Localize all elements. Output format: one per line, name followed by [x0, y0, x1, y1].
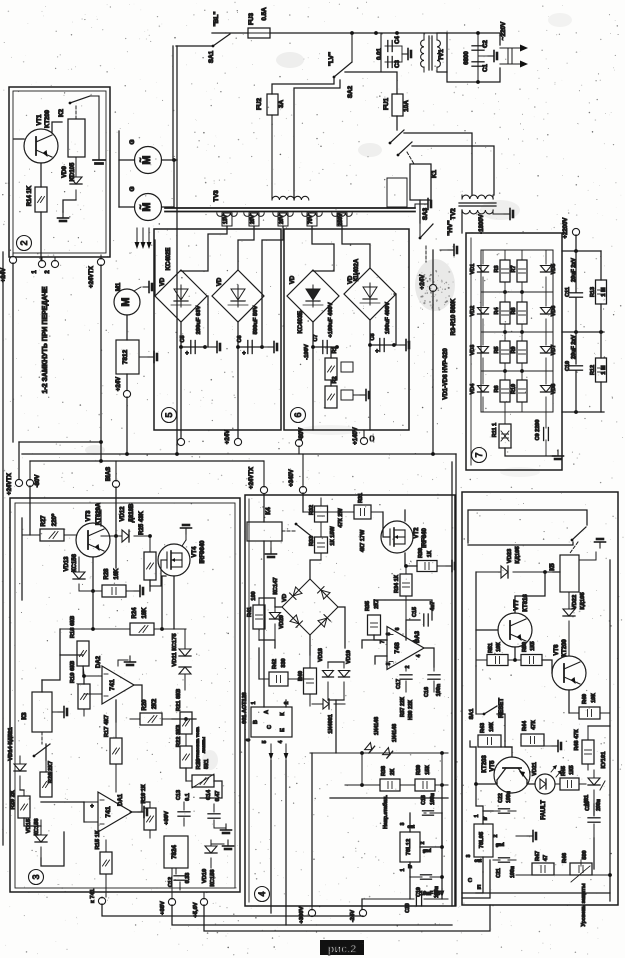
ground TV3: [415, 199, 431, 210]
label fig2: [320, 940, 364, 956]
label R22 3K3: [176, 724, 182, 747]
svg-text:КУ101: КУ101: [601, 751, 607, 769]
wire bridge4 right: [338, 607, 345, 648]
wire 78L05 top: [476, 784, 483, 824]
label SA2: [347, 85, 354, 98]
block 7 box: [466, 233, 562, 470]
svg-text:VD10: VD10: [202, 869, 208, 884]
svg-text:+24V: +24V: [1, 268, 7, 282]
terminal bus a: [177, 438, 184, 445]
ground filter: [478, 51, 497, 62]
svg-text:330: 330: [281, 658, 287, 667]
wire R20 to R21: [172, 718, 186, 720]
wire VT2 top: [404, 510, 406, 521]
resistor R1: [325, 358, 353, 380]
label +30V: [164, 811, 170, 825]
wire M1 to 7812: [126, 315, 128, 340]
svg-text:1: 1: [251, 701, 257, 704]
capacitor C23: [588, 812, 600, 838]
bridge VD KC402E b: [212, 270, 264, 322]
svg-text:20V: 20V: [250, 214, 256, 224]
svg-text:VD8: VD8: [551, 384, 557, 395]
ground TV2: [493, 209, 513, 220]
wire K1 dash: [407, 152, 414, 164]
svg-text:FAULT: FAULT: [540, 800, 547, 820]
wire 78L12 down: [409, 862, 411, 877]
wire DA3 out: [424, 648, 434, 667]
wire bias down: [115, 487, 117, 536]
wire filter box: [447, 33, 500, 82]
svg-text:FU2: FU2: [256, 98, 263, 110]
svg-text:R34 1К: R34 1К: [394, 574, 400, 593]
wire bridge b cap: [238, 346, 262, 348]
svg-text:R1: R1: [332, 346, 338, 353]
pins 78L05: [466, 814, 504, 863]
label VS1: [584, 795, 590, 805]
svg-text:IRF9640: IRF9640: [200, 540, 206, 564]
label R28 16K: [104, 568, 120, 580]
label R7: [511, 265, 517, 272]
label VT7 KT816: [514, 594, 529, 612]
contact K1 a: [389, 130, 404, 144]
svg-text:+30V: +30V: [164, 811, 170, 825]
svg-text:1: 1: [413, 639, 419, 642]
resistor R8: [517, 292, 527, 332]
label SA1: [208, 50, 215, 63]
led VD21: [535, 774, 555, 794]
contact K2: [69, 96, 99, 104]
resistor R11: [499, 412, 511, 448]
wire DA2 inputs: [82, 674, 102, 694]
svg-text:VT6: VT6: [554, 644, 560, 656]
diode VD23: [476, 566, 553, 578]
svg-text:C10: C10: [565, 361, 571, 371]
svg-text:C4: C4: [395, 36, 401, 44]
label VD13 KS156: [64, 553, 78, 572]
wire AOT k: [285, 700, 287, 707]
label VD1: [470, 264, 476, 275]
svg-text:VD14 КД521: VD14 КД521: [8, 726, 14, 760]
diode VD16: [365, 743, 375, 753]
label C7: [313, 334, 319, 341]
svg-text:R10: R10: [511, 384, 517, 394]
label 4K717W: [360, 529, 366, 552]
label R33 1K15W: [309, 526, 336, 546]
svg-text:+24V: +24V: [116, 377, 122, 391]
label DA1: [118, 793, 124, 806]
block 3 box: [10, 498, 240, 892]
wire K1 down: [419, 200, 421, 223]
wire bridge d right: [394, 294, 396, 345]
label C4 0.01 C3: [377, 36, 401, 68]
resistor R40: [304, 655, 317, 706]
svg-text:КД105: КД105: [580, 592, 586, 610]
wire SA2 to FU2: [272, 77, 334, 94]
fuse FU2: [267, 94, 278, 199]
svg-text:~: ~: [136, 157, 145, 162]
svg-text:0.47: 0.47: [215, 791, 221, 802]
wire bridge b down: [237, 322, 239, 439]
label -80V bus: [299, 428, 305, 441]
svg-text:R3-R10 560K: R3-R10 560K: [451, 298, 457, 335]
label K1: [431, 169, 438, 178]
motor G1: [135, 147, 162, 174]
svg-text:4: 4: [278, 740, 284, 743]
label R46 500: [562, 850, 588, 863]
svg-text:3A: 3A: [278, 100, 285, 109]
wire R21 branch: [186, 718, 196, 720]
wire R14 down: [40, 212, 42, 260]
wire DA1 out: [132, 785, 142, 812]
svg-text:лампы: лампы: [202, 737, 207, 753]
wire C20 left: [361, 899, 363, 910]
block 5R box: [462, 492, 618, 905]
wire DA1 inputs: [84, 802, 98, 822]
resistor R31: [303, 505, 383, 519]
svg-text:220*: 220*: [52, 513, 58, 526]
transformer TV3 winding 2: [244, 213, 264, 216]
label R40: [298, 671, 304, 681]
block 5 box: [154, 229, 281, 430]
label R11: [492, 423, 498, 437]
label C9 2200: [535, 420, 541, 441]
svg-text:VD: VD: [160, 277, 166, 286]
label +5.6V: [193, 902, 199, 917]
wire VT6 emitter down: [568, 690, 570, 713]
wire right bus drop: [455, 454, 457, 906]
terminal +140V bus: [360, 430, 367, 445]
wire b3 node: [115, 536, 117, 568]
switch SA3: [419, 223, 433, 239]
svg-text:VD3: VD3: [470, 345, 476, 356]
resistor R6: [500, 371, 510, 412]
transformer TV2 primary: [462, 195, 493, 199]
wire AOT a down: [270, 760, 272, 913]
wire SA3 dash: [425, 246, 427, 262]
label R25 43K: [139, 510, 145, 534]
svg-text:-100V: -100V: [304, 344, 310, 360]
svg-text:C15: C15: [412, 607, 418, 617]
diode VD4: [478, 371, 489, 412]
svg-text:R12: R12: [590, 365, 596, 375]
diode VD22: [563, 592, 575, 656]
wire R18 R19: [83, 666, 84, 684]
svg-text:VD4: VD4: [470, 383, 476, 395]
label R8: [511, 307, 517, 314]
label R44 47K: [522, 720, 537, 731]
svg-text:7: 7: [474, 452, 484, 457]
circled 5: [162, 408, 177, 423]
label R45 1K5: [561, 765, 575, 776]
wire bridge4 bottom: [309, 635, 311, 655]
label R35 2K7: [365, 599, 380, 611]
label N30 22K: [408, 699, 414, 720]
label R43 10K: [480, 722, 495, 733]
junction VT2 source: [404, 564, 408, 568]
terminal +5.6V: [200, 892, 207, 906]
terminal +24VTX b4: [260, 461, 267, 494]
svg-text:001 АОТ128: 001 АОТ128: [242, 692, 248, 723]
svg-text:R33: R33: [309, 536, 315, 546]
pins AOT128: [246, 701, 290, 743]
diode VD6: [541, 292, 552, 332]
capacitor C20: [362, 892, 448, 906]
capacitor C10: [570, 366, 583, 370]
svg-text:R30: R30: [418, 548, 424, 558]
svg-text:1 М: 1 М: [601, 287, 607, 297]
resistor R15: [100, 840, 112, 897]
resistor R5: [500, 332, 510, 371]
wire reset rail: [475, 666, 477, 714]
svg-text:100н: 100н: [430, 793, 436, 805]
label C5: [180, 335, 189, 357]
label +38V: [160, 901, 166, 915]
arrow out 2: [500, 61, 528, 68]
transformer TV3 primary: [272, 196, 309, 200]
svg-text:C11: C11: [565, 287, 571, 297]
svg-text:2: 2: [45, 270, 51, 274]
terminal +38V: [168, 868, 175, 906]
label C22 100n: [498, 791, 512, 803]
transistor VT3: [76, 523, 110, 557]
svg-text:3: 3: [400, 822, 406, 825]
wire VT3 top: [100, 510, 102, 526]
label R30 1K: [418, 548, 433, 558]
wire motor1: [119, 158, 177, 162]
wire reset to base: [497, 714, 505, 741]
svg-text:1К5: 1К5: [530, 641, 536, 650]
svg-text:KT209: KT209: [45, 109, 51, 128]
wire b3 r25 bottom: [149, 580, 151, 591]
wire E path: [462, 860, 490, 898]
svg-text:3: 3: [466, 854, 472, 857]
terminal -80V bus: [295, 430, 302, 454]
wire R31 to VT2 gate: [383, 512, 390, 537]
ground K4: [266, 541, 277, 557]
wire bottom 5R2: [608, 873, 612, 893]
wire VT4 gate: [150, 560, 167, 586]
svg-text:~220V: ~220V: [500, 21, 507, 40]
svg-text:500: 500: [582, 850, 588, 859]
circled 6: [291, 408, 306, 423]
svg-text:R6: R6: [494, 385, 500, 392]
svg-text:К5: К5: [549, 563, 556, 571]
terminal +24V mid: [429, 284, 436, 291]
svg-text:R15 1К: R15 1К: [95, 830, 101, 849]
svg-text:DA2: DA2: [96, 655, 102, 668]
wire VT7 base: [476, 629, 498, 631]
label VT2 IRF840: [414, 527, 428, 548]
ground C6: [262, 342, 277, 353]
relay K3: [32, 692, 52, 732]
label VD1-VD8 HVP-320: [443, 348, 449, 400]
wire left rail 5R: [475, 572, 477, 666]
svg-text:+24VTX: +24VTX: [249, 467, 255, 489]
svg-text:R50: R50: [522, 642, 528, 652]
label ~220V: [500, 21, 507, 40]
svg-text:+: +: [185, 351, 189, 357]
wire R22 down: [185, 768, 187, 781]
wire -80 into b3: [29, 486, 31, 535]
arrow out 1: [500, 45, 528, 52]
arrow AOT a: [269, 744, 274, 760]
svg-text:R5: R5: [494, 346, 500, 353]
label +24VTX mid: [7, 473, 13, 495]
label VD4: [470, 383, 476, 395]
terminal -24V: [359, 906, 366, 917]
label FAULT: [540, 800, 547, 820]
label R31: [358, 493, 364, 503]
label KU101: [601, 751, 607, 769]
resistor R43: [470, 735, 501, 747]
transformer TV3 winding 5: [332, 213, 352, 216]
svg-text:Уровень защиты: Уровень защиты: [581, 883, 587, 927]
label R3-R10 560K: [451, 298, 457, 335]
svg-text:C9 2200: C9 2200: [535, 420, 541, 441]
wire VT3 e down: [92, 591, 94, 629]
svg-text:VT4: VT4: [192, 546, 198, 558]
svg-text:10К: 10К: [591, 693, 597, 703]
svg-text:К4: К4: [265, 507, 272, 515]
circled 3: [29, 870, 44, 885]
wire tap13 to bridge a: [181, 226, 227, 271]
label K5: [549, 563, 556, 571]
svg-text:VT1: VT1: [37, 114, 43, 126]
wire VT5 col: [475, 747, 477, 784]
svg-text:VD2: VD2: [470, 306, 476, 317]
svg-text:VD1-VD8 HVP-320: VD1-VD8 HVP-320: [443, 348, 449, 400]
ground C5: [205, 342, 220, 353]
wire 7812 down: [126, 374, 128, 391]
svg-text:M1: M1: [116, 282, 122, 291]
svg-text:VD20: VD20: [279, 615, 285, 629]
svg-text:8: 8: [386, 632, 392, 635]
wire R41 top rail: [259, 598, 275, 607]
svg-text:R17 4К7: R17 4К7: [104, 715, 110, 737]
ground R30: [437, 561, 455, 572]
svg-text:R8: R8: [511, 307, 517, 314]
wire R48 top: [588, 725, 610, 727]
label R20 2K2: [142, 698, 158, 710]
svg-text:4: 4: [416, 654, 422, 657]
label R34 1K: [394, 574, 400, 593]
svg-text:К: К: [280, 712, 286, 716]
label R17 4K7: [104, 715, 110, 737]
terminal +24V block2: [9, 253, 16, 264]
wire 19 down: [18, 442, 20, 479]
wire b3 mid rail: [42, 655, 60, 680]
svg-text:500uF 50V: 500uF 50V: [253, 306, 259, 335]
label R41 100: [247, 591, 257, 617]
resistor R49: [569, 707, 610, 719]
wire R24 to VT4: [162, 576, 166, 629]
label VT1 pos: [0, 0, 1, 1]
svg-text:6: 6: [246, 738, 252, 741]
wire K3 dash: [41, 732, 43, 744]
label 7824: [171, 845, 178, 859]
bridge VD KC402A d: [344, 268, 396, 320]
label 78L05: [479, 831, 485, 848]
wire 78L12 top: [409, 813, 411, 832]
svg-text:VD13: VD13: [64, 556, 70, 572]
label +140V bus: [353, 427, 375, 445]
transformer TV1 secondary: [437, 33, 440, 72]
wire long rail a: [172, 46, 174, 160]
wire VD23 to K5: [553, 571, 560, 573]
capacitor C18: [410, 811, 442, 815]
capacitor C6: [236, 341, 264, 354]
ground HV sw: [440, 245, 457, 256]
capacitor C2: [472, 31, 484, 84]
svg-text:TV3: TV3: [213, 190, 220, 202]
wire b4 rail 785: [345, 753, 448, 787]
svg-text:R41: R41: [247, 607, 253, 617]
svg-text:2К7: 2К7: [374, 599, 380, 608]
wire b3 r17 top: [115, 700, 117, 722]
wire SA3 to +24V: [432, 250, 434, 284]
svg-text:C5: C5: [180, 335, 186, 342]
wire VT5 base up: [505, 741, 512, 757]
svg-text:+300V: +300V: [299, 906, 305, 923]
label 47K2W: [338, 508, 344, 528]
diode VD18: [323, 662, 334, 700]
ground block7: [546, 440, 564, 459]
label TV2: [450, 208, 457, 220]
resistor R41: [253, 598, 265, 640]
thyristor VS1: [588, 770, 605, 804]
svg-text:VD1: VD1: [470, 264, 476, 275]
label +24V m1: [116, 377, 122, 391]
label napr stabil: [382, 795, 389, 829]
wire DA2 out: [134, 685, 142, 702]
svg-text:M: M: [120, 297, 132, 306]
wire SA2 right branch: [294, 80, 340, 199]
label M1: [116, 282, 122, 291]
bridge VD KS147: [282, 579, 338, 635]
wire VT1 base feed: [14, 138, 24, 140]
label FU1 10A: [383, 98, 410, 112]
svg-text:R40: R40: [298, 671, 304, 681]
diode VD9: [70, 157, 82, 200]
wire K4 dash: [282, 530, 296, 532]
resistor R27: [22, 529, 76, 541]
capacitor C21: [493, 858, 516, 862]
bridge VD KC402E a: [155, 270, 207, 322]
svg-text:10К: 10К: [496, 642, 502, 652]
wire DA3 fb loop: [374, 600, 432, 640]
label R2: [332, 376, 338, 383]
fuse FU3: [248, 28, 270, 38]
svg-text:2: 2: [493, 834, 499, 837]
wire TV1 to filter: [437, 33, 447, 72]
label R13 1M: [590, 287, 607, 297]
diode VD17: [383, 748, 393, 758]
label VT6 KT209: [554, 639, 568, 657]
svg-text:R26 2К7: R26 2К7: [48, 761, 54, 783]
svg-text:+5,6V: +5,6V: [193, 902, 199, 917]
label VD3: [470, 345, 476, 356]
wire b4 right rail: [441, 813, 443, 899]
terminal in741: [98, 897, 105, 905]
label FU2 3A: [256, 98, 285, 110]
svg-text:1N4001: 1N4001: [328, 714, 334, 733]
label ustanovka: [195, 727, 207, 763]
resistor R9: [517, 332, 527, 371]
wire +24VTX down: [100, 265, 102, 461]
svg-text:6: 6: [293, 412, 303, 417]
label HV: [447, 220, 454, 235]
label R42 330: [272, 658, 287, 669]
